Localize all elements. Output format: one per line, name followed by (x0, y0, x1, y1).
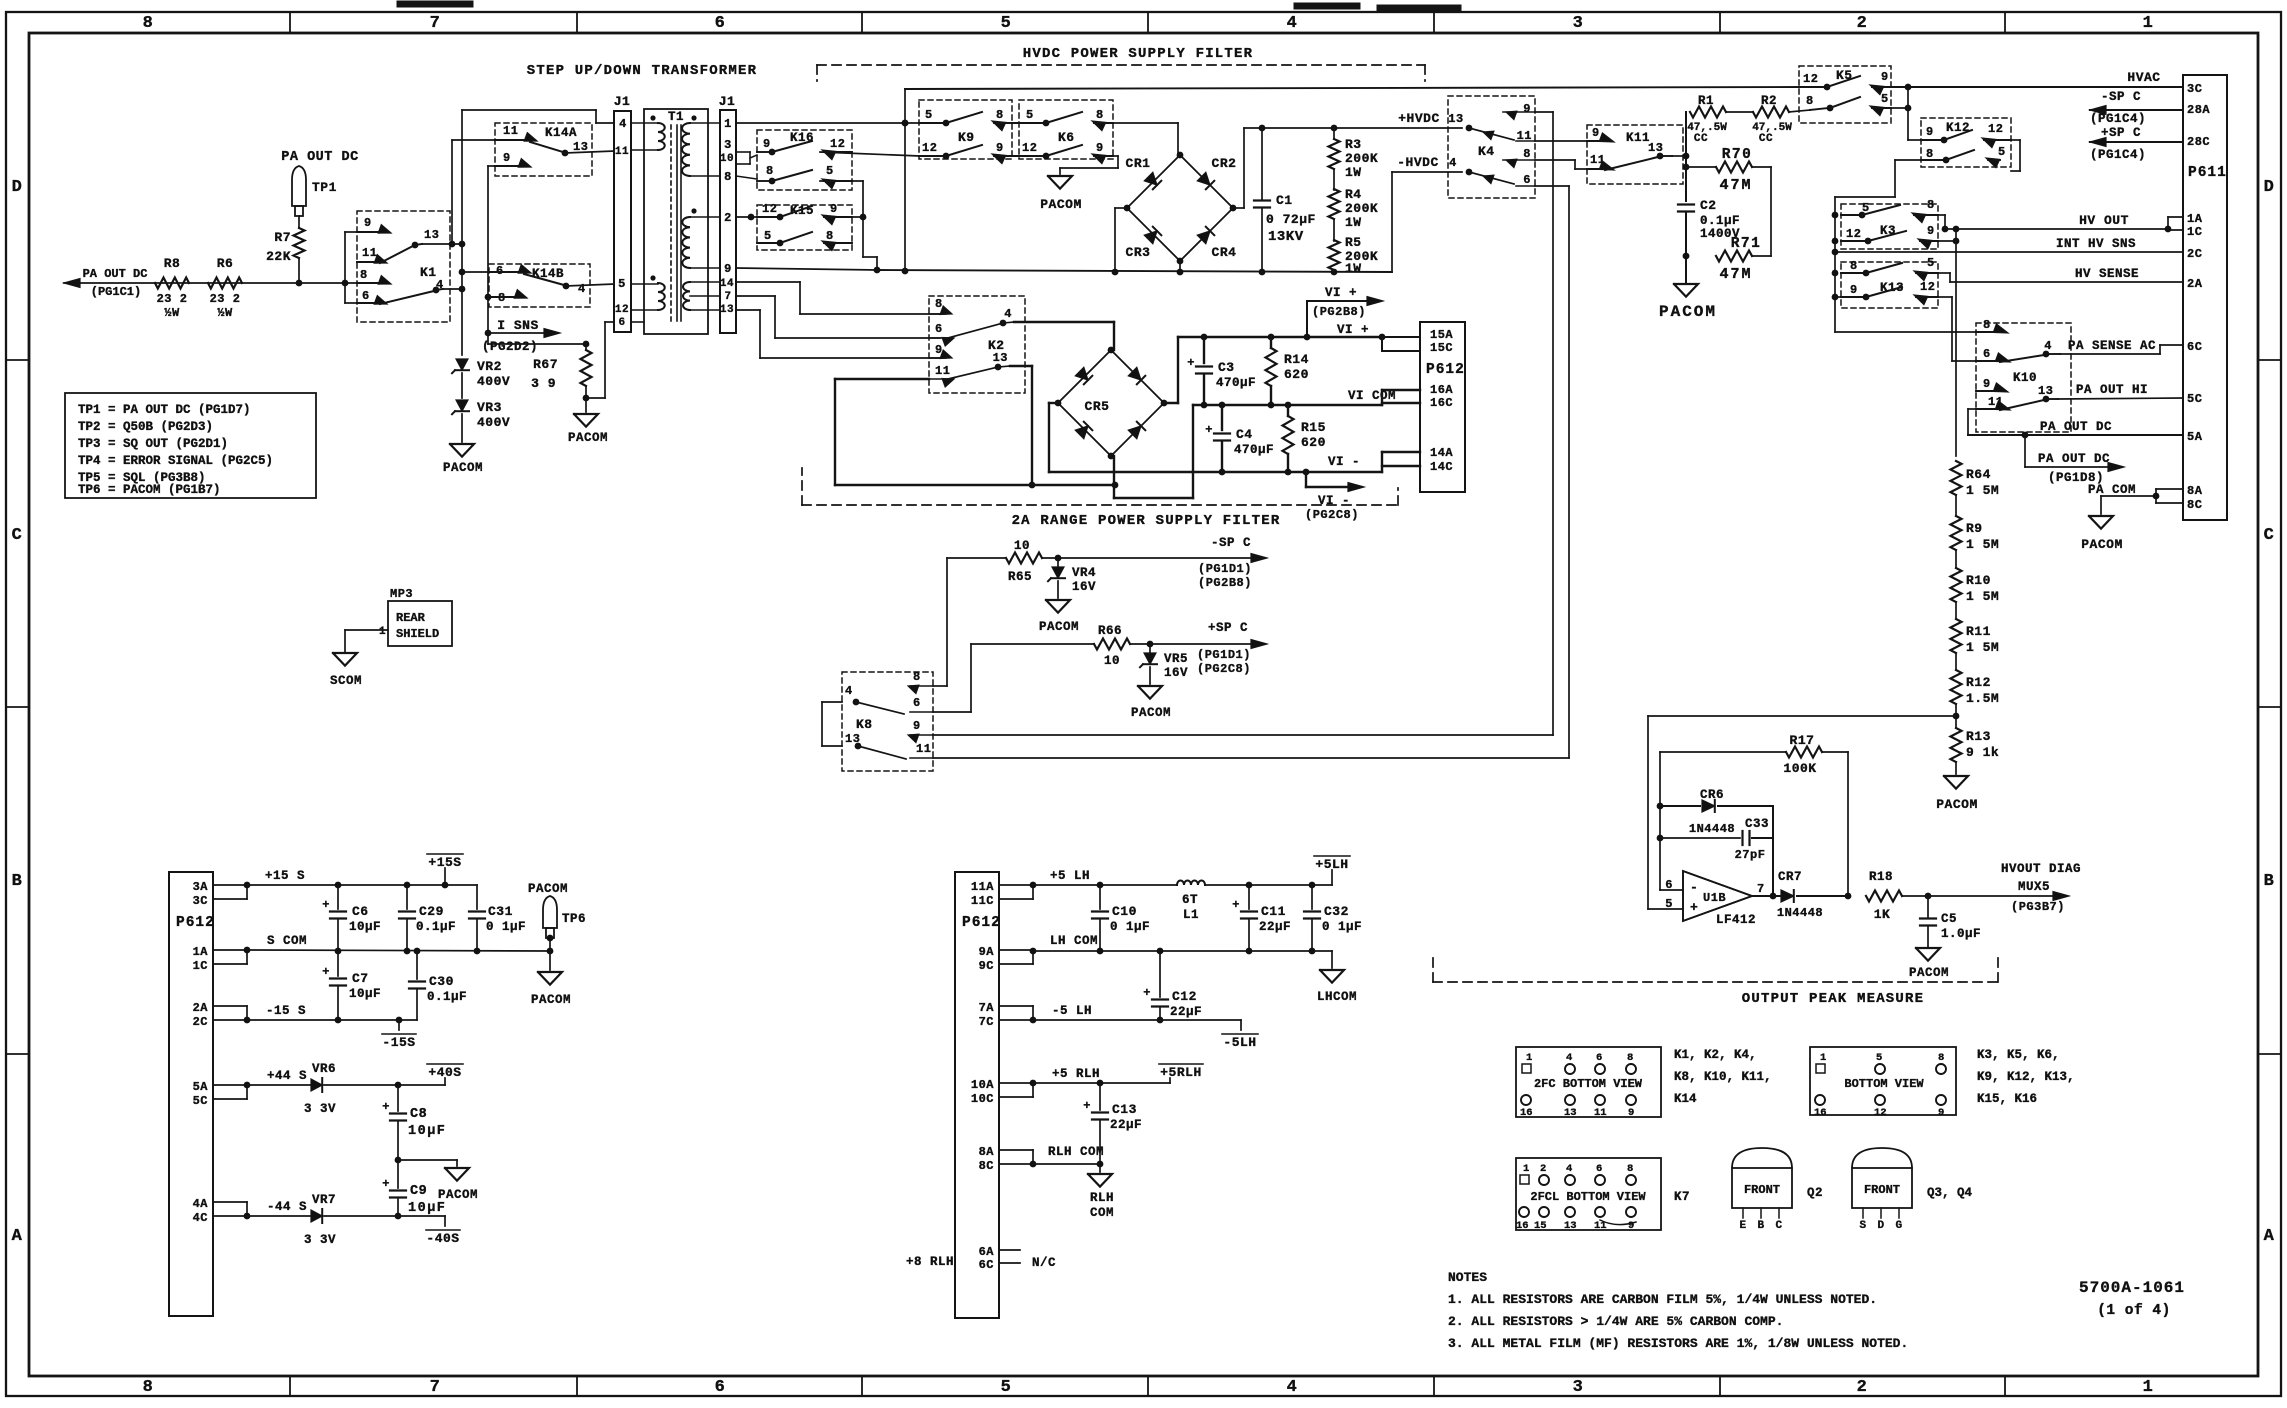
svg-text:R10: R10 (1966, 573, 1991, 588)
svg-text:+15 S: +15 S (265, 869, 305, 883)
node -SP C arrow (2090, 90, 2183, 126)
svg-text:+5 LH: +5 LH (1050, 869, 1090, 883)
svg-text:A: A (2264, 1227, 2275, 1246)
svg-text:K8, K10, K11,: K8, K10, K11, (1674, 1070, 1772, 1084)
svg-text:S: S (1859, 1220, 1866, 1232)
svg-text:N/C: N/C (1032, 1256, 1056, 1270)
svg-text:0.1μF: 0.1μF (416, 920, 456, 934)
resistor R65 line -SP C (947, 539, 1267, 584)
svg-text:22μF: 22μF (1259, 920, 1291, 934)
svg-text:PA OUT HI: PA OUT HI (2076, 383, 2148, 397)
svg-text:PACOM: PACOM (443, 461, 483, 475)
svg-text:5: 5 (1876, 1052, 1883, 1064)
node MUX5 arrow (1928, 862, 2081, 914)
svg-text:4: 4 (619, 117, 627, 131)
svg-text:0 1μF: 0 1μF (486, 920, 526, 934)
resistor R13 (1951, 704, 2000, 762)
svg-text:PACOM: PACOM (1936, 797, 1978, 812)
wire T1 left stubs (631, 123, 658, 322)
svg-text:HVDC POWER SUPPLY FILTER: HVDC POWER SUPPLY FILTER (1023, 46, 1253, 62)
node -44 S label (267, 1200, 307, 1214)
svg-text:+SP C: +SP C (2101, 126, 2141, 140)
capacitor C2 (1678, 198, 1740, 241)
column labels bottom (143, 1378, 2154, 1397)
svg-text:14A: 14A (1430, 446, 1453, 460)
svg-text:CR5: CR5 (1085, 399, 1110, 414)
capacitor C9 (382, 1160, 446, 1219)
svg-text:R8: R8 (164, 256, 181, 271)
wire HV SENSE (1938, 273, 2183, 282)
svg-text:R7: R7 (274, 230, 291, 245)
svg-text:22μF: 22μF (1170, 1005, 1202, 1019)
node LH COM label (1050, 934, 1098, 948)
svg-text:-SP C: -SP C (2101, 90, 2141, 104)
svg-text:28C: 28C (2187, 135, 2210, 149)
svg-text:C32: C32 (1324, 904, 1349, 919)
svg-text:1K: 1K (1874, 907, 1891, 922)
node +8 RLH label (906, 1255, 954, 1269)
wire K1 pin9/6 column (342, 232, 357, 303)
svg-text:3: 3 (1573, 14, 1584, 33)
svg-text:C: C (2264, 526, 2275, 545)
svg-text:R64: R64 (1966, 467, 1991, 482)
svg-text:K1: K1 (420, 265, 437, 280)
capacitor C7 (322, 951, 381, 1020)
svg-text:BOTTOM VIEW: BOTTOM VIEW (1844, 1077, 1924, 1091)
svg-text:I SNS: I SNS (497, 318, 539, 333)
svg-text:12: 12 (1874, 1107, 1887, 1119)
svg-text:200K: 200K (1345, 201, 1378, 216)
svg-text:13: 13 (1564, 1107, 1577, 1119)
svg-text:9: 9 (1523, 102, 1531, 116)
svg-text:K7: K7 (1674, 1190, 1690, 1204)
ground PACOM below C2 (1659, 284, 1717, 321)
svg-text:PACOM: PACOM (1909, 966, 1949, 980)
connector P612 top (1420, 322, 1465, 492)
svg-text:6C: 6C (2187, 340, 2202, 354)
svg-text:INT HV SNS: INT HV SNS (2056, 237, 2136, 251)
relay K9 (919, 100, 1012, 164)
svg-text:9: 9 (1096, 141, 1104, 155)
svg-text:1: 1 (1523, 1163, 1530, 1175)
wire K4-11 to K11 (1535, 140, 1607, 142)
svg-text:K15, K16: K15, K16 (1977, 1092, 2037, 1106)
svg-text:+5LH: +5LH (1315, 857, 1348, 872)
svg-text:5: 5 (1026, 108, 1034, 122)
wire op-amp pin6 (1657, 752, 1683, 890)
svg-text:B: B (12, 872, 23, 891)
diode bridge CR1-CR4 (1124, 152, 1237, 265)
svg-text:10: 10 (1104, 654, 1120, 668)
node VI COM label (1348, 389, 1396, 403)
wire R67 to J1-6 (586, 322, 614, 398)
node +SP C labels (1197, 621, 1251, 676)
svg-text:10: 10 (1014, 539, 1030, 553)
svg-text:7A: 7A (979, 1001, 995, 1015)
node -HVDC label (1397, 155, 1457, 170)
box MP3 REAR SHIELD (345, 587, 452, 652)
wire INT HV SNS (1832, 249, 2183, 256)
svg-text:CC: CC (1694, 133, 1708, 145)
node PA OUT DC label top (281, 150, 358, 165)
svg-text:K8: K8 (856, 717, 873, 732)
zener VR3 (452, 400, 510, 442)
capacitor C30 (409, 948, 467, 1020)
wire J1-3/10 bracket to K16 (736, 152, 757, 164)
svg-text:9A: 9A (979, 945, 995, 959)
svg-text:7C: 7C (979, 1015, 994, 1029)
svg-text:13: 13 (720, 304, 734, 316)
svg-text:D: D (1877, 1220, 1884, 1232)
svg-text:T1: T1 (668, 110, 684, 124)
capacitor C12 (1143, 951, 1202, 1023)
svg-text:1W: 1W (1345, 165, 1362, 180)
svg-text:PA OUT DC: PA OUT DC (83, 267, 148, 281)
node S COM label (267, 934, 307, 948)
svg-text:R12: R12 (1966, 675, 1991, 690)
svg-text:(PG1D1): (PG1D1) (1198, 562, 1252, 576)
svg-text:2FCL BOTTOM VIEW: 2FCL BOTTOM VIEW (1530, 1190, 1646, 1204)
ground PACOM below VR3 (443, 444, 483, 475)
svg-text:9: 9 (1628, 1107, 1635, 1119)
svg-text:(PG2C8): (PG2C8) (1305, 508, 1359, 522)
wire CR5 left corner to VI- rail (1049, 403, 1058, 472)
svg-text:½W: ½W (164, 306, 180, 320)
svg-text:12: 12 (1988, 122, 2003, 136)
wire J1-8 to K16 row2 (736, 176, 757, 179)
transformer T1 (644, 109, 708, 334)
wire K14A-13 to J1-11 (565, 151, 614, 153)
svg-text:4A: 4A (193, 1197, 209, 1211)
node 1A/1C bracket (213, 947, 250, 964)
svg-text:+: + (382, 1177, 390, 1191)
label K1 K2 K4 group (1674, 1048, 1772, 1106)
svg-text:(PG1D1): (PG1D1) (1197, 648, 1251, 662)
svg-text:1N4448: 1N4448 (1689, 822, 1735, 836)
svg-text:16C: 16C (1430, 396, 1453, 410)
resistor R12 (1951, 653, 2000, 706)
node +5LH tag (1314, 856, 1350, 885)
svg-text:C33: C33 (1745, 817, 1769, 831)
svg-text:9: 9 (1926, 125, 1934, 139)
svg-text:8: 8 (826, 229, 834, 243)
resistor R1 (1687, 94, 1727, 145)
svg-text:SHIELD: SHIELD (396, 627, 439, 641)
svg-text:13: 13 (993, 351, 1008, 365)
svg-text:15C: 15C (1430, 341, 1453, 355)
wire K3 feeds and HV OUT (1832, 212, 2168, 245)
relay K16 (757, 130, 852, 190)
resistor R70 (1686, 147, 1771, 194)
svg-text:CR3: CR3 (1126, 245, 1151, 260)
relay K12 (1921, 118, 2011, 168)
wire K8-6 up to R66 (933, 644, 971, 712)
svg-text:3 9: 3 9 (531, 376, 556, 391)
svg-text:9: 9 (364, 216, 372, 230)
svg-text:1C: 1C (193, 959, 208, 973)
svg-text:-44 S: -44 S (267, 1200, 307, 1214)
svg-text:1A: 1A (193, 945, 209, 959)
svg-text:10: 10 (720, 153, 734, 165)
svg-text:4: 4 (578, 282, 586, 296)
capacitor C4 (1205, 405, 1274, 472)
row labels right (2264, 178, 2275, 1246)
wire K16 row1 out to K9-12 (820, 152, 919, 156)
node 9A/9C bracket (999, 948, 1036, 964)
wire CR5 right corner to VI+ rail (1164, 337, 1178, 403)
svg-text:CC: CC (1759, 133, 1773, 145)
wire R12/R13 node to op-amp (1648, 716, 1956, 909)
wire PA SENSE AC (2060, 345, 2183, 354)
svg-text:K10: K10 (2013, 371, 2037, 385)
label OUTPUT PEAK MEASURE (1742, 991, 1924, 1007)
svg-text:C12: C12 (1172, 989, 1197, 1004)
svg-text:(PG1C4): (PG1C4) (2090, 148, 2146, 162)
svg-text:8: 8 (1927, 198, 1935, 212)
svg-text:9: 9 (830, 202, 838, 216)
node 4A/4C bracket (213, 1202, 250, 1219)
svg-text:B: B (1757, 1220, 1764, 1232)
svg-text:3C: 3C (193, 894, 208, 908)
transistor Q3 Q4 pinout (1852, 1148, 1973, 1232)
wire K4-8 jog to K11-11 (1535, 160, 1595, 169)
transistor Q2 pinout (1732, 1148, 1823, 1232)
svg-text:C5: C5 (1941, 912, 1957, 926)
svg-text:9: 9 (503, 151, 511, 165)
svg-text:47M: 47M (1719, 177, 1752, 194)
relay K4 (1448, 96, 1535, 198)
svg-text:1 5M: 1 5M (1966, 589, 1999, 604)
svg-text:E: E (1739, 1220, 1746, 1232)
svg-text:5: 5 (618, 277, 626, 291)
svg-text:2A RANGE POWER SUPPLY FILTER: 2A RANGE POWER SUPPLY FILTER (1012, 513, 1281, 529)
svg-text:9: 9 (1628, 1220, 1635, 1232)
svg-text:4: 4 (1287, 14, 1298, 33)
svg-text:10μF: 10μF (408, 1124, 446, 1139)
connector J1 right (719, 94, 736, 333)
svg-text:TP1: TP1 (312, 180, 337, 195)
resistor R66 line +SP C (971, 624, 1267, 668)
svg-text:VR2: VR2 (477, 359, 502, 374)
ground PACOM below PA COM (2081, 516, 2123, 552)
svg-text:2: 2 (1540, 1163, 1547, 1175)
ground PACOM below VR4 (1039, 600, 1079, 634)
svg-text:4: 4 (845, 684, 853, 698)
node PA OUT DC label 5A (2040, 420, 2112, 434)
wire VI+ rail (1178, 334, 1385, 341)
relay K11 (1587, 125, 1683, 184)
svg-text:6C: 6C (979, 1258, 994, 1272)
svg-text:8: 8 (1096, 108, 1104, 122)
svg-text:COM: COM (1090, 1206, 1114, 1220)
svg-text:6T: 6T (1182, 893, 1198, 907)
title 5700A-1061 (2079, 1279, 2185, 1319)
svg-text:6A: 6A (979, 1245, 995, 1259)
row labels left (12, 178, 23, 1246)
svg-text:9: 9 (913, 719, 921, 733)
svg-text:C3: C3 (1218, 360, 1235, 375)
capacitor C29 (399, 885, 456, 951)
svg-text:6: 6 (913, 696, 921, 710)
svg-text:6: 6 (496, 264, 504, 278)
svg-text:3. ALL METAL FILM (MF) RESISTO: 3. ALL METAL FILM (MF) RESISTORS ARE 1%,… (1448, 1336, 1908, 1351)
svg-text:3: 3 (1573, 1378, 1584, 1397)
svg-text:VI +: VI + (1325, 286, 1357, 300)
wire K12 feeds (1835, 140, 2020, 332)
svg-text:0 1μF: 0 1μF (1322, 920, 1362, 934)
svg-text:9: 9 (1927, 224, 1935, 238)
svg-text:1A: 1A (2187, 212, 2203, 226)
svg-text:C10: C10 (1112, 904, 1137, 919)
node -40S tag (426, 1216, 460, 1246)
svg-text:10μF: 10μF (408, 1201, 446, 1216)
svg-text:C2: C2 (1700, 198, 1717, 213)
svg-text:(PG2D2): (PG2D2) (482, 340, 538, 354)
dashed bracket HVDC filter (817, 65, 1425, 81)
wire +44 S (247, 1084, 310, 1086)
svg-text:8: 8 (1938, 1052, 1945, 1064)
svg-text:FRONT: FRONT (1864, 1183, 1900, 1197)
svg-text:K11: K11 (1626, 131, 1650, 145)
resistor R64 (1951, 229, 2000, 498)
svg-text:CR4: CR4 (1212, 245, 1237, 260)
svg-text:J1: J1 (614, 94, 631, 109)
ground PACOM near C8 (438, 1168, 478, 1202)
svg-text:12: 12 (615, 304, 629, 316)
wire +5 LH rail right (1205, 882, 1332, 889)
connector P612 bottom left (169, 872, 215, 1316)
svg-text:S COM: S COM (267, 934, 307, 948)
svg-text:TP3 = SQ OUT (PG2D1): TP3 = SQ OUT (PG2D1) (78, 437, 228, 451)
wire K14B-4 to J1-5 (566, 284, 614, 286)
svg-text:(PG3B7): (PG3B7) (2011, 900, 2065, 914)
svg-text:B: B (2264, 872, 2275, 891)
wire +15 S rail (247, 882, 477, 889)
svg-text:Q2: Q2 (1807, 1186, 1823, 1200)
svg-text:MUX5: MUX5 (2018, 880, 2050, 894)
svg-text:8: 8 (766, 164, 774, 178)
capacitor C33 (1660, 817, 1773, 862)
svg-text:(PG1C4): (PG1C4) (2090, 112, 2146, 126)
svg-text:VR3: VR3 (477, 400, 502, 415)
svg-text:16V: 16V (1164, 666, 1188, 680)
svg-text:0.1μF: 0.1μF (427, 990, 467, 1004)
svg-text:12: 12 (830, 137, 845, 151)
svg-text:6: 6 (935, 322, 943, 336)
wire node down to VR2 (459, 244, 466, 355)
node INT HV SNS label (2056, 237, 2136, 251)
svg-text:(PG2B8): (PG2B8) (1198, 576, 1252, 590)
svg-text:7: 7 (724, 291, 731, 303)
node +15 S label (265, 869, 305, 883)
svg-text:PACOM: PACOM (1131, 706, 1171, 720)
resistor R11 (1951, 602, 2000, 655)
wire S COM rail (247, 948, 553, 955)
node RLH COM label (1048, 1145, 1104, 1159)
svg-text:C7: C7 (352, 971, 369, 986)
node +5 LH label (1050, 869, 1090, 883)
svg-text:3 3V: 3 3V (304, 1102, 336, 1116)
side ruler ticks (6, 360, 2281, 1054)
wire K15 row1 out down (826, 214, 866, 221)
svg-text:1: 1 (1526, 1052, 1532, 1064)
node I SNS arrow (482, 318, 560, 354)
resistor R18 (1866, 870, 1931, 922)
svg-text:8: 8 (143, 1378, 154, 1397)
test point TP6 PACOM (528, 882, 586, 951)
svg-text:+40S: +40S (428, 1065, 461, 1080)
svg-text:PACOM: PACOM (568, 431, 608, 445)
wire K13-9/K10-8 feed (1835, 331, 1976, 333)
relay K14A (495, 123, 592, 176)
svg-text:R71: R71 (1731, 236, 1762, 252)
svg-text:23 2: 23 2 (210, 292, 241, 306)
resistor R4 (1329, 169, 1379, 230)
svg-text:C30: C30 (429, 974, 454, 989)
legend box TP1-TP6 (65, 393, 316, 498)
svg-text:PA SENSE AC: PA SENSE AC (2068, 339, 2156, 353)
svg-text:2: 2 (1857, 1378, 1868, 1397)
svg-text:13: 13 (1564, 1220, 1577, 1232)
svg-text:C31: C31 (488, 904, 513, 919)
svg-text:+: + (1187, 356, 1195, 370)
svg-text:1.0μF: 1.0μF (1941, 927, 1981, 941)
svg-text:1N4448: 1N4448 (1777, 906, 1823, 920)
node VI- label (1328, 455, 1360, 469)
svg-text:10μF: 10μF (349, 987, 381, 1001)
svg-text:VR4: VR4 (1072, 566, 1096, 580)
svg-text:2: 2 (1857, 14, 1868, 33)
resistor R10 (1951, 550, 2000, 604)
dashed bracket OUTPUT PEAK MEASURE (1433, 957, 1998, 982)
svg-text:CR6: CR6 (1700, 788, 1724, 802)
svg-text:9C: 9C (979, 959, 994, 973)
svg-text:C: C (1775, 1220, 1782, 1232)
svg-text:K9: K9 (958, 130, 975, 145)
wire +5 RLH rail (1033, 1080, 1170, 1087)
diode bridge CR5 (1055, 347, 1168, 460)
svg-text:R70: R70 (1722, 147, 1753, 163)
svg-text:HVOUT DIAG: HVOUT DIAG (2001, 862, 2081, 876)
ground SCOM (330, 653, 362, 688)
svg-text:4: 4 (1287, 1378, 1298, 1397)
node 2A/2C bracket (213, 1006, 250, 1023)
node 11A/11C bracket (999, 882, 1036, 899)
wire K6 row2 to PACOM (1060, 156, 1118, 174)
svg-text:12: 12 (1920, 280, 1935, 294)
svg-text:J1: J1 (719, 94, 736, 109)
connector J1 left (614, 94, 631, 332)
svg-text:4: 4 (1566, 1163, 1573, 1175)
svg-text:REAR: REAR (396, 611, 426, 625)
notes text (1448, 1270, 1908, 1351)
svg-text:PACOM: PACOM (438, 1188, 478, 1202)
svg-text:10μF: 10μF (349, 920, 381, 934)
svg-text:5: 5 (1881, 92, 1889, 106)
svg-text:STEP UP/DOWN TRANSFORMER: STEP UP/DOWN TRANSFORMER (527, 63, 757, 79)
relay K8 (842, 670, 933, 771)
svg-text:0.1μF: 0.1μF (1700, 214, 1740, 228)
node 14A/14C bracket (1382, 452, 1420, 472)
svg-text:C29: C29 (419, 904, 444, 919)
node +44 S label (267, 1069, 307, 1083)
node +15S tag (427, 854, 463, 885)
wire K11-13 to node (1672, 112, 1689, 282)
svg-text:11: 11 (1594, 1107, 1607, 1119)
svg-text:LHCOM: LHCOM (1317, 990, 1357, 1004)
svg-text:TP2 = Q50B (PG2D3): TP2 = Q50B (PG2D3) (78, 420, 213, 434)
svg-text:7: 7 (1757, 882, 1765, 896)
